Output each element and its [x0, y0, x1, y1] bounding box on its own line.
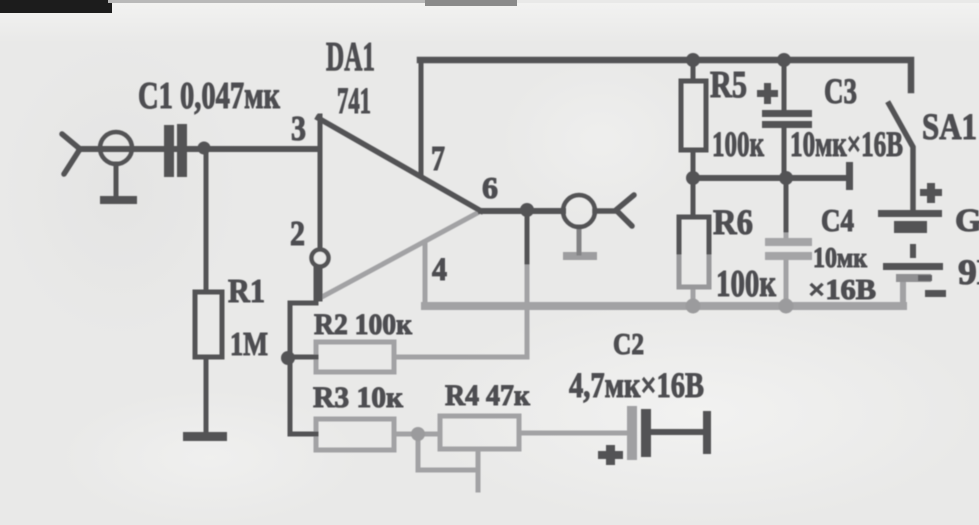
- svg-text:SA1: SA1: [922, 107, 977, 148]
- svg-text:R5: R5: [710, 64, 747, 106]
- svg-text:10мк×16В: 10мк×16В: [790, 124, 903, 164]
- svg-text:×16В: ×16В: [808, 275, 876, 306]
- svg-text:3: 3: [291, 109, 306, 148]
- svg-text:R6: R6: [713, 202, 753, 242]
- svg-text:10мк: 10мк: [813, 243, 868, 274]
- svg-text:R3 10к: R3 10к: [313, 381, 404, 414]
- svg-text:R4 47к: R4 47к: [445, 379, 531, 412]
- svg-text:741: 741: [337, 81, 371, 122]
- svg-text:DA1: DA1: [326, 33, 375, 79]
- svg-text:R2 100к: R2 100к: [314, 308, 413, 341]
- svg-text:1М: 1М: [230, 326, 268, 363]
- svg-text:2: 2: [290, 214, 305, 253]
- svg-text:G1: G1: [955, 203, 979, 239]
- svg-text:100к: 100к: [712, 124, 764, 164]
- svg-text:100к: 100к: [716, 263, 776, 305]
- svg-text:C1 0,047мк: C1 0,047мк: [138, 75, 280, 117]
- svg-text:C4: C4: [821, 202, 854, 238]
- svg-text:7: 7: [431, 139, 445, 178]
- svg-text:R1: R1: [228, 273, 265, 310]
- svg-text:C2: C2: [613, 326, 644, 361]
- svg-text:C3: C3: [824, 71, 857, 111]
- svg-text:4,7мк×16В: 4,7мк×16В: [569, 365, 704, 405]
- svg-text:9В: 9В: [958, 252, 979, 292]
- svg-text:6: 6: [482, 170, 498, 205]
- svg-text:4: 4: [432, 252, 447, 288]
